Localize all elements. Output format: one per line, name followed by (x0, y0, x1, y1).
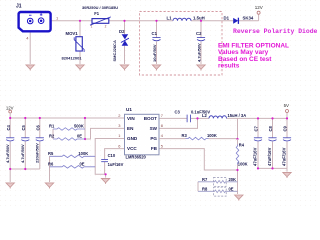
svg-text:R8: R8 (202, 187, 208, 192)
varistor MOV1 (74, 37, 84, 52)
svg-text:3: 3 (118, 123, 120, 128)
wire L1 to D1 (191, 20, 233, 22)
wire C8 column (272, 118, 274, 168)
wire C3 right to junction (191, 117, 198, 119)
connector J1 (19, 12, 51, 31)
svg-text:47uF/16V: 47uF/16V (267, 147, 272, 166)
svg-text:D2: D2 (119, 29, 125, 34)
U1 pin numbers 2 3 1 6 7 8 4 5 (118, 113, 164, 148)
wire MOV1 to ground (79, 52, 81, 65)
junction R3 R4 (236, 138, 238, 140)
capacitor C4 (6, 138, 14, 141)
svg-text:C4: C4 (6, 125, 11, 131)
wire MOV1 drop (79, 21, 81, 37)
svg-text:100K: 100K (238, 161, 248, 166)
wire C9 column (286, 118, 288, 168)
svg-text:C5: C5 (21, 125, 26, 131)
junction cap bottom rail C4 (9, 168, 11, 170)
capacitor C2 (197, 38, 205, 41)
svg-text:VCC: VCC (127, 146, 137, 151)
svg-text:5V: 5V (284, 103, 289, 108)
svg-text:R5: R5 (48, 151, 54, 156)
svg-text:BOOT: BOOT (144, 116, 157, 121)
junction rail C5 (24, 117, 26, 119)
junction C1 (155, 20, 157, 22)
svg-text:R3: R3 (182, 133, 188, 138)
svg-text:2: 2 (118, 113, 120, 118)
wire C2 to ground (200, 42, 202, 64)
svg-text:4.7uF/50V: 4.7uF/50V (197, 43, 202, 62)
svg-text:2: 2 (105, 24, 107, 28)
svg-text:C3: C3 (175, 109, 181, 114)
wire GND pin (95, 139, 124, 175)
junction rail C6 (39, 117, 41, 119)
wire EN jog (85, 128, 125, 139)
svg-text:D1: D1 (224, 16, 230, 21)
junction SW node (196, 117, 198, 119)
inductor L1 (173, 18, 191, 21)
svg-text:U1: U1 (126, 107, 132, 112)
capacitor C5 (21, 138, 29, 141)
wire R7 R8 right vertical to ground (237, 170, 239, 194)
pin stub BOOT (159, 117, 187, 119)
resistor R6 (50, 166, 96, 169)
wire C2 drop (200, 21, 202, 38)
resistor R4 (236, 145, 239, 165)
svg-text:30R250U / 30R185U: 30R250U / 30R185U (82, 5, 118, 10)
wire vout fb divider vertical (237, 118, 239, 139)
svg-text:0E: 0E (80, 162, 85, 167)
svg-text:0.1uF/50V: 0.1uF/50V (191, 109, 210, 114)
TVS diode D2 (122, 34, 129, 46)
ground under J1 (26, 65, 34, 71)
svg-text:MOV1: MOV1 (66, 31, 79, 36)
svg-text:0E: 0E (229, 187, 234, 192)
wire fuse to EMI box (109, 20, 173, 22)
wire J1 pin4 down (29, 31, 31, 64)
ground under C1 (152, 65, 160, 71)
fuse F1 (90, 17, 111, 25)
junction C9 (286, 117, 288, 119)
wire cout ground stem (286, 168, 288, 171)
svg-text:FB: FB (151, 146, 158, 151)
wire C10 bottom (104, 162, 106, 174)
junction MOV1 (79, 20, 81, 22)
ground under R7 R8 (235, 195, 243, 201)
svg-text:SMCJ26CA: SMCJ26CA (112, 40, 117, 61)
pin stub SW (159, 118, 198, 128)
12V power flag (257, 11, 260, 14)
junction cout bottom C7 (257, 167, 259, 169)
12V flag bottom (9, 110, 12, 113)
svg-text:10uF/50V: 10uF/50V (152, 44, 157, 62)
svg-text:1uF/16V: 1uF/16V (108, 162, 124, 167)
ground under C10 (101, 178, 109, 184)
resistor R3 (186, 137, 209, 140)
junction 12V rail C4 (9, 117, 11, 119)
wire R5 R6 left bracket to ground (49, 156, 51, 182)
wire C1 drop (156, 21, 158, 38)
inductor L2 (209, 116, 227, 119)
wire cap bottom rail (10, 168, 40, 170)
wire C5 column (24, 118, 26, 169)
wire C1 to ground (156, 42, 158, 64)
svg-text:7: 7 (161, 113, 163, 118)
svg-text:0E: 0E (77, 133, 82, 138)
svg-text:PG: PG (150, 136, 157, 141)
capacitor C8 (268, 138, 276, 141)
svg-text:47uF/16V: 47uF/16V (253, 147, 258, 166)
wire 12V flag stem (258, 14, 260, 21)
wire VCC pin to C10 (105, 149, 125, 159)
svg-text:C2: C2 (196, 31, 202, 36)
ground under C4 rail (6, 183, 14, 189)
junction cout bottom C8 (271, 167, 273, 169)
svg-text:820412001: 820412001 (62, 56, 83, 61)
svg-text:VIN: VIN (127, 116, 135, 121)
wire FB path (159, 149, 238, 170)
junction D2 (123, 20, 125, 22)
svg-text:20K: 20K (229, 177, 237, 182)
svg-text:C1: C1 (152, 31, 158, 36)
svg-text:J1: J1 (16, 4, 22, 10)
svg-text:EN: EN (127, 126, 134, 131)
resistor R2 (53, 138, 85, 141)
5V power flag (286, 110, 289, 113)
svg-text:LMR36520: LMR36520 (126, 155, 147, 160)
ground under MOV1 (76, 65, 84, 71)
wire D1 to 12V flag (238, 20, 258, 22)
EMI filter dashed box (140, 12, 223, 76)
svg-text:4.7uF/50V: 4.7uF/50V (20, 144, 25, 163)
capacitor C1 (152, 38, 160, 41)
capacitor C7 (254, 138, 262, 141)
svg-text:R6: R6 (48, 162, 54, 167)
svg-text:Reverse Polarity Diode: Reverse Polarity Diode (233, 28, 318, 35)
svg-text:R2: R2 (49, 133, 55, 138)
ground under R5 R6 (45, 183, 53, 189)
ground under D2 (120, 65, 128, 71)
wire 5V stem (286, 113, 288, 119)
svg-text:100K: 100K (207, 133, 217, 138)
svg-text:1: 1 (91, 24, 93, 28)
capacitor C3 (187, 115, 191, 123)
svg-text:12V: 12V (255, 5, 263, 10)
junction C10 ground node (105, 173, 107, 175)
svg-text:5: 5 (161, 143, 163, 148)
junction cap bottom rail C5 (24, 168, 26, 170)
wire D2 drop (124, 21, 126, 34)
capacitor C10 (101, 159, 108, 161)
svg-text:12V: 12V (6, 105, 14, 110)
resistor R8 (198, 190, 238, 193)
capacitor C9 (283, 138, 291, 141)
capacitor C6 (36, 138, 44, 141)
svg-text:C6: C6 (35, 125, 40, 131)
op-amp U1 body (125, 114, 160, 155)
wire D2 to ground (124, 46, 126, 64)
wire VIN rail (10, 117, 124, 119)
svg-text:6: 6 (118, 143, 120, 148)
svg-text:R1: R1 (49, 123, 55, 128)
wire cout bottom rail (258, 167, 287, 169)
junction EN node (84, 138, 86, 140)
svg-text:15uH / 3A: 15uH / 3A (228, 113, 247, 118)
svg-text:8: 8 (161, 123, 163, 128)
junction C8 (271, 117, 273, 119)
svg-text:500K: 500K (74, 123, 84, 128)
svg-text:L2: L2 (202, 113, 208, 118)
U1 pin names VIN EN GND VCC BOOT SW PG FB (127, 116, 158, 151)
ground under cout (283, 172, 291, 178)
resistor R1 (53, 128, 85, 131)
svg-text:1: 1 (118, 133, 120, 138)
wire J1 pin1 to fuse (51, 20, 93, 22)
wire C6 column (39, 118, 41, 169)
svg-text:SW: SW (150, 126, 158, 131)
wire C7 column (257, 118, 259, 168)
diode D1 (233, 18, 238, 24)
svg-text:C8: C8 (268, 126, 273, 132)
wire R7 R8 left bracket (197, 182, 199, 192)
junction rail R1 (84, 117, 86, 119)
wire L2 rail out (198, 117, 210, 119)
svg-text:100K: 100K (78, 151, 88, 156)
svg-text:4.7uF/50V: 4.7uF/50V (5, 144, 10, 163)
wire C10 ground stem (105, 174, 107, 177)
resistor R5 (50, 155, 96, 158)
svg-text:C9: C9 (282, 126, 287, 132)
wire C4 column (9, 118, 11, 169)
svg-text:results: results (218, 63, 240, 70)
junction C2 (200, 20, 202, 22)
svg-text:C10: C10 (108, 153, 116, 158)
svg-text:47uF/16V: 47uF/16V (282, 147, 287, 166)
resistor R7 (198, 181, 238, 184)
svg-text:R7: R7 (202, 177, 208, 182)
wire 12V stem (9, 113, 11, 118)
ground under C2 (197, 65, 205, 71)
wire R1 R2 left bracket (52, 129, 54, 139)
svg-text:1.5uH: 1.5uH (193, 15, 205, 20)
wire VIN to R divider vertical (84, 118, 86, 139)
svg-text:SK34: SK34 (243, 16, 254, 21)
svg-text:L1: L1 (167, 15, 173, 20)
svg-text:C7: C7 (253, 126, 258, 132)
junction FB node (236, 169, 238, 171)
junction C7 (257, 117, 259, 119)
svg-text:220nF/50V: 220nF/50V (35, 143, 40, 163)
svg-text:R4: R4 (239, 143, 245, 148)
svg-text:F1: F1 (94, 11, 100, 16)
svg-text:GND: GND (127, 136, 138, 141)
wire ground stem (9, 169, 11, 182)
